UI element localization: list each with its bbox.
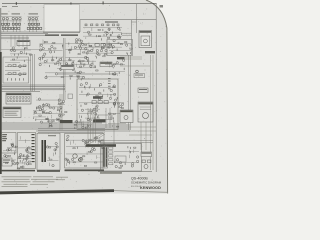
MPX decoder cluster Q40-Q44 [79, 82, 116, 107]
resistor column R60 [108, 78, 111, 89]
AM tuner block Q4-Q8 [39, 40, 63, 67]
label box MPX FILTER [100, 62, 112, 67]
headphone amp cluster [14, 156, 26, 169]
bias cluster [85, 137, 100, 147]
regulator board outline [101, 144, 142, 172]
MPX filter cluster [77, 59, 98, 71]
meter driver cluster [108, 110, 126, 127]
power transformer T90 [37, 133, 60, 170]
section labels FM/AM FRONT END [1, 6, 38, 14]
ratio detector transformers [95, 43, 111, 47]
scan speckle [2, 5, 166, 190]
frame right border [155, 3, 157, 172]
power switch cluster Q70 Q71 [74, 118, 90, 129]
regulator cluster Q80-Q84 [114, 146, 139, 168]
label strip transformer [37, 170, 60, 172]
parts list text block AM/FM [2, 134, 7, 141]
left page fold shadow [0, 8, 2, 174]
tuning meter box M1 [139, 31, 152, 48]
SCA filter cluster [109, 41, 132, 55]
filter capacitor C91 [79, 158, 83, 162]
label strip regulator [100, 172, 122, 173]
MPX decoder board outline [77, 79, 118, 130]
label POWER SW [93, 119, 106, 122]
main amp board outline [18, 133, 36, 169]
wire preout risers [88, 108, 96, 143]
label SPEAKER SYSTEM [145, 51, 155, 53]
wire psu bus [38, 129, 105, 133]
remote box outline [120, 110, 133, 123]
wire separator risers [64, 38, 65, 100]
wire signal bus mid [1, 85, 65, 91]
coil squiggle wires [1, 16, 39, 21]
relay coil box [115, 156, 126, 162]
vertical interconnect wires tuner [3, 20, 38, 32]
IF transformer row T7-T17 [2, 27, 42, 29]
wire main bus lower [1, 123, 130, 131]
wire IF bus right extension [122, 33, 132, 35]
balance control cluster [57, 58, 75, 72]
schematic sheet background [0, 0, 171, 200]
label FM IF AMP [105, 21, 118, 22]
wire centre rail [58, 73, 118, 75]
filter capacitor C90 [73, 154, 77, 158]
tuning gang VC2 [28, 17, 37, 19]
label box AC OUTLET [138, 88, 148, 93]
label box BALANCE [61, 65, 74, 69]
phono eq stage row2 [5, 70, 26, 75]
page bottom shadow band [0, 189, 168, 194]
IF amp transistors Q10-Q14 [83, 27, 122, 41]
antenna coils L1 L2 [2, 17, 8, 19]
wire far-right risers [151, 55, 154, 170]
FM det output cluster [86, 49, 112, 58]
capacitor row C20-C24 [7, 78, 24, 80]
phono eq stage row1 [5, 62, 26, 67]
speaker relay box [141, 152, 152, 157]
wire right feeds [120, 57, 150, 66]
AM RF amp cluster Q1-Q3 [10, 47, 32, 62]
label box headphones [134, 74, 145, 78]
wire pair to function switch [1, 37, 29, 39]
wire IF top rail [80, 20, 156, 32]
function switch S1 [6, 93, 31, 104]
label box 4CH AMP [2, 158, 12, 166]
IF coil row [85, 24, 119, 26]
title drawing number [131, 186, 141, 188]
pilot lamp assembly [142, 160, 151, 169]
filter module box [68, 94, 73, 99]
AC relay cluster [46, 142, 58, 166]
svg-text:SCHEMATIC DIAGRAM: SCHEMATIC DIAGRAM [131, 181, 162, 185]
dial label strip [45, 34, 78, 36]
decoder RC module row [92, 101, 108, 104]
muting cluster Q50-Q52 [105, 59, 125, 76]
driver output parts [3, 144, 17, 166]
FM MPX block Q9 IC1 [65, 39, 91, 68]
centre lower band [45, 71, 85, 80]
transistor Q55 [136, 70, 139, 73]
preamp board outline [3, 57, 29, 83]
label strip psu board [65, 169, 105, 171]
svg-text:KENWOOD: KENWOOD [140, 186, 161, 190]
power supply board outline [65, 134, 105, 168]
aux input cluster [58, 99, 67, 113]
MPX output transistors Q45-Q48 [78, 109, 93, 129]
regulator heat sink [102, 146, 108, 168]
wire mid risers [106, 108, 114, 147]
connector pin column [32, 134, 35, 162]
KENWOOD logo [140, 186, 161, 190]
wire drops from switch rows [11, 35, 27, 47]
label VOLUME [93, 96, 103, 99]
note text column2 [56, 177, 68, 180]
page right edge shadow [146, 0, 168, 194]
mode switch S2 [3, 107, 21, 118]
label MUTING [117, 57, 125, 59]
meter amp box outline [95, 115, 112, 119]
page number stamp [160, 5, 164, 8]
speaker terminal box [138, 102, 153, 122]
pre out cluster [85, 105, 100, 120]
title model number QS-4000B [131, 177, 148, 181]
tone amp cluster Q30-Q35 [36, 98, 64, 122]
label strip amp board [1, 170, 35, 172]
wire regulator feed lines [100, 141, 153, 143]
main amp cluster Q62-Q65 [19, 136, 33, 162]
wire right hookups [129, 122, 156, 150]
frame tick marks [16, 1, 104, 4]
meter lamp cluster [114, 97, 124, 108]
bias network parts [16, 149, 31, 165]
dial scale window [43, 5, 80, 32]
wire aux risers [60, 94, 62, 130]
transformer label [48, 135, 56, 136]
label strip AF PC board [86, 144, 116, 147]
title SCHEMATIC DIAGRAM [131, 181, 162, 185]
regulator resistor column [109, 147, 113, 165]
wire riser group left [31, 54, 35, 91]
IF transformer row T1-T6 [2, 23, 40, 25]
rectifier smoothing cluster [65, 135, 105, 166]
tuning gang VC1 [12, 17, 21, 19]
SCA filter box outline [107, 40, 133, 56]
wire antenna feed risers [132, 4, 137, 55]
driver stage Q60 Q61 [7, 143, 16, 155]
wire diag fan [84, 132, 105, 146]
dial lamp box PL1 [17, 40, 30, 45]
driver board outline [2, 133, 17, 154]
wire am rf feed [1, 49, 43, 51]
frame top border [2, 2, 157, 4]
wire bus tuner out [1, 32, 48, 35]
note text lines [2, 176, 59, 187]
wire bottom frame [98, 171, 152, 173]
label PROTECTOR [60, 120, 73, 123]
AF switch cluster Q20-Q22 [33, 108, 46, 121]
FM detector cluster Q15 Q16 [76, 40, 122, 51]
wire right risers [129, 55, 131, 130]
protector relay cluster [40, 119, 57, 128]
